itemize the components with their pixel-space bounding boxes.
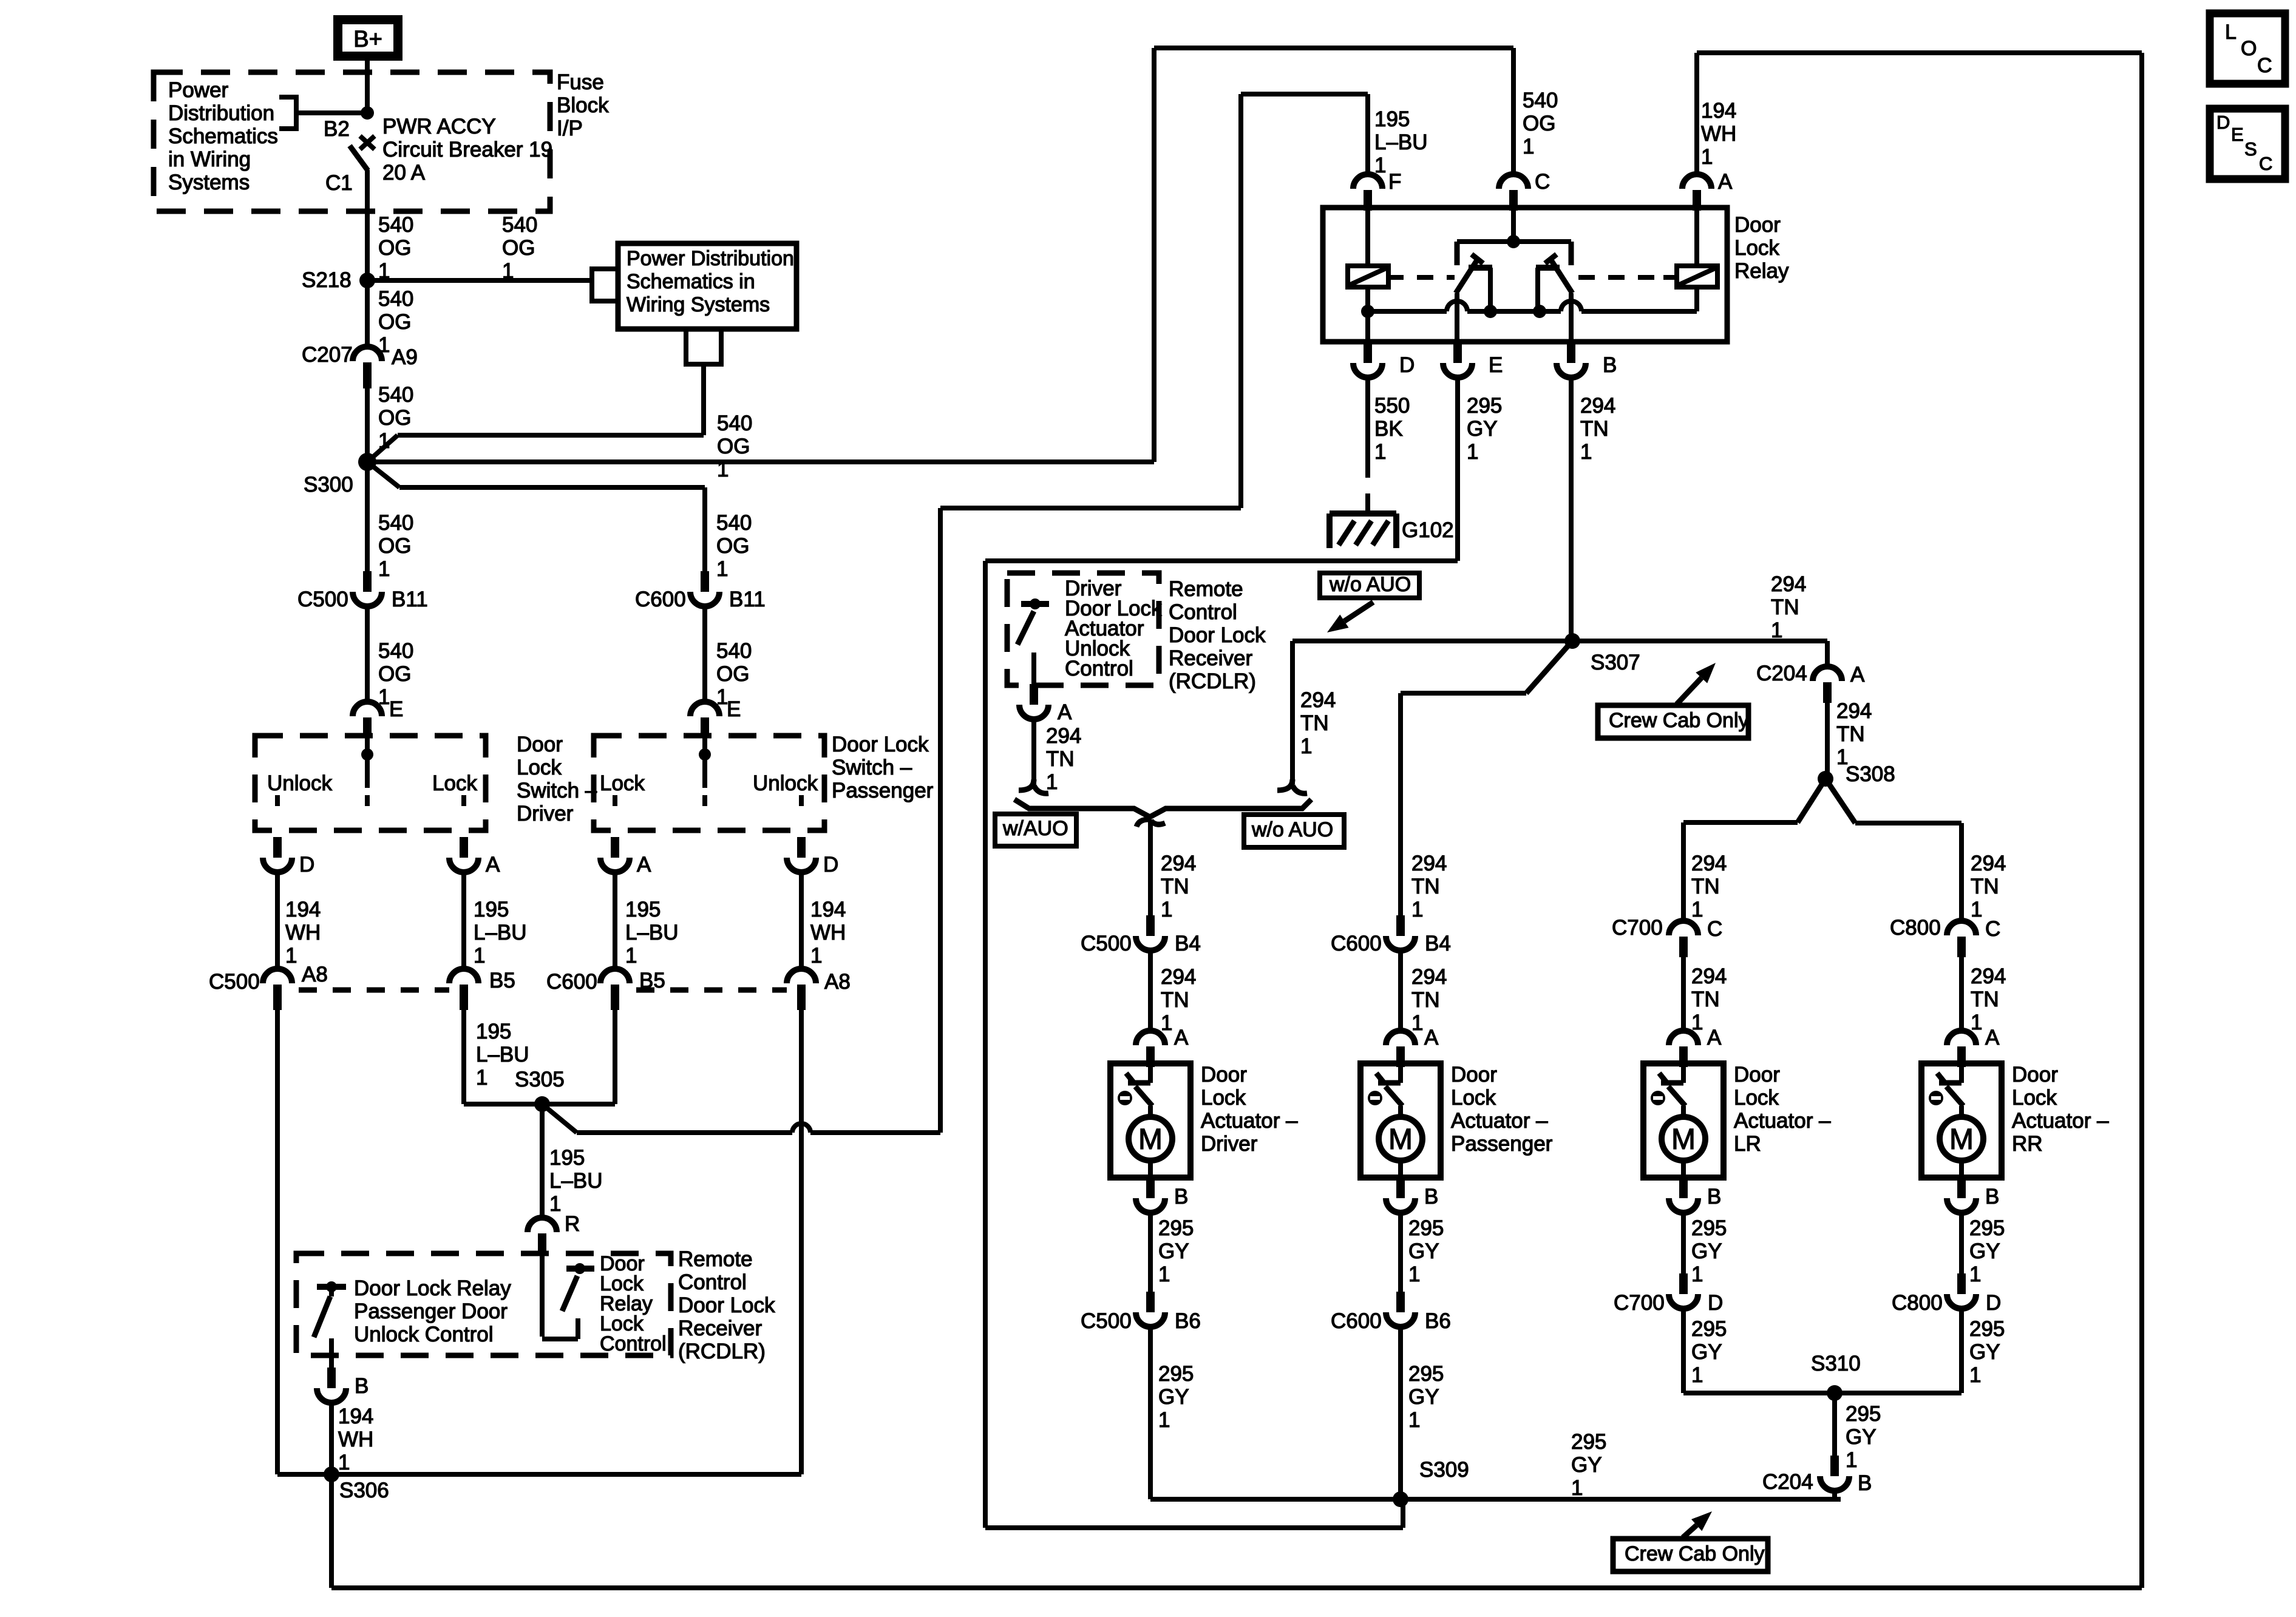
connector A passenger lock output: [611, 837, 619, 858]
connector C600 pin B6: [1396, 1292, 1405, 1312]
svg-text:294: 294: [1046, 724, 1081, 748]
connector D relay: [1364, 342, 1372, 363]
svg-text:TN: TN: [1046, 747, 1075, 771]
svg-text:C600: C600: [635, 588, 686, 611]
svg-text:A: A: [1058, 700, 1072, 724]
connector C700 pin C: [1669, 921, 1698, 935]
svg-text:C600: C600: [1331, 1309, 1382, 1333]
svg-text:B: B: [1603, 353, 1617, 377]
node S305: [534, 1096, 550, 1112]
svg-text:A: A: [1985, 1026, 2000, 1049]
w/o AUO option box 2: [1244, 815, 1344, 847]
svg-text:Lock: Lock: [1734, 1086, 1779, 1110]
node S300: [358, 453, 376, 471]
svg-text:1: 1: [1158, 1408, 1170, 1432]
svg-text:D: D: [1399, 353, 1415, 377]
svg-text:I/P: I/P: [557, 117, 583, 140]
connector D passenger unlock output: [797, 837, 806, 858]
svg-text:GY: GY: [1691, 1239, 1722, 1263]
svg-text:M: M: [1949, 1124, 1974, 1156]
wire A down to w/AUO hook: [1031, 719, 1036, 784]
RCDLR dashed box: [296, 1253, 671, 1355]
wire S300 down-branch to C600: [367, 462, 399, 487]
wire S307 diagonal branch to passenger actuator: [1526, 641, 1572, 693]
svg-text:S310: S310: [1811, 1352, 1861, 1375]
svg-text:1: 1: [716, 557, 728, 581]
relay lock coil: [1365, 211, 1370, 266]
motor M LR actuator: [1662, 1117, 1705, 1161]
svg-text:294: 294: [1580, 394, 1615, 418]
svg-text:1: 1: [1408, 1263, 1420, 1286]
svg-text:1: 1: [1691, 1363, 1703, 1387]
connector A8 passenger: [787, 969, 816, 983]
wire B down to S306: [329, 1403, 334, 1474]
svg-text:C204: C204: [1756, 662, 1807, 685]
w/AUO option box: [995, 814, 1076, 846]
svg-text:B: B: [1985, 1185, 1999, 1209]
svg-text:D: D: [1986, 1291, 2001, 1315]
svg-text:1: 1: [1691, 898, 1703, 921]
svg-text:Power Distribution: Power Distribution: [627, 247, 794, 270]
svg-text:C600: C600: [1331, 932, 1382, 955]
connector C600 pin B4: [1396, 915, 1405, 936]
connector bridge dashes driver: [299, 988, 449, 993]
svg-text:A: A: [1174, 1026, 1189, 1049]
svg-text:Lock: Lock: [1734, 236, 1779, 260]
svg-text:Schematics: Schematics: [168, 124, 278, 148]
hook w/AUO wire end: [1019, 779, 1034, 790]
wire S218 to power distribution box bracket: [367, 278, 592, 283]
wire C600 B4 to actuator A: [1398, 951, 1403, 1031]
wire C204 B to S309 line: [1832, 1491, 1837, 1499]
wire S310 down to C204 B: [1832, 1393, 1837, 1456]
svg-text:S300: S300: [304, 473, 353, 497]
svg-text:Wiring Systems: Wiring Systems: [627, 293, 770, 316]
w/o AUO option box with arrow: [1320, 573, 1419, 598]
svg-text:C500: C500: [1081, 932, 1132, 955]
wire switch to connector A: [1031, 653, 1036, 684]
svg-text:OG: OG: [378, 310, 411, 334]
connector A RR actuator: [1947, 1031, 1976, 1045]
svg-text:GY: GY: [1846, 1425, 1877, 1449]
connector A RCDLR upper: [1030, 684, 1038, 705]
relay lock switch blade: [1550, 259, 1572, 293]
svg-text:E: E: [389, 697, 403, 721]
svg-text:C800: C800: [1892, 1291, 1943, 1315]
svg-text:1: 1: [1300, 734, 1312, 758]
motor M RR actuator: [1940, 1117, 1983, 1161]
connector B passenger actuator: [1396, 1178, 1405, 1198]
svg-text:540: 540: [378, 511, 413, 535]
svg-text:TN: TN: [1691, 875, 1720, 898]
svg-text:OG: OG: [378, 534, 411, 558]
svg-text:540: 540: [378, 213, 413, 237]
wire C500 to driver switch pin E: [365, 606, 370, 702]
connector C204 pin A: [1813, 666, 1842, 681]
svg-text:L–BU: L–BU: [474, 921, 527, 944]
svg-text:1: 1: [1969, 1363, 1981, 1387]
wire B2 feed to breaker: [296, 110, 367, 115]
svg-text:L–BU: L–BU: [476, 1043, 529, 1066]
svg-text:GY: GY: [1408, 1385, 1439, 1409]
svg-text:1: 1: [1969, 1263, 1981, 1286]
svg-text:C1: C1: [325, 171, 353, 195]
B+ battery terminal: [338, 20, 398, 56]
svg-text:Lock: Lock: [1201, 1086, 1246, 1110]
svg-text:540: 540: [716, 639, 752, 663]
svg-text:1: 1: [1374, 440, 1386, 464]
relay unlock switch NC contact: [1469, 265, 1492, 271]
svg-text:295: 295: [1408, 1216, 1444, 1240]
wire breaker C1 down to S218: [365, 170, 370, 280]
connector A driver actuator: [1136, 1031, 1165, 1045]
wire driver A to B5: [461, 872, 466, 969]
wire C700 C to actuator A: [1681, 957, 1686, 1031]
wire C500 B4 to actuator A: [1148, 951, 1153, 1031]
passenger switch feed wire and node: [702, 738, 707, 788]
svg-text:1: 1: [1161, 898, 1172, 921]
svg-text:A: A: [637, 853, 651, 876]
svg-text:Unlock Control: Unlock Control: [354, 1323, 494, 1346]
svg-text:Door: Door: [2012, 1063, 2058, 1086]
svg-text:Door Lock: Door Lock: [678, 1293, 775, 1317]
wire S305 down to R: [540, 1104, 545, 1218]
svg-text:540: 540: [717, 412, 752, 435]
svg-text:BK: BK: [1374, 417, 1403, 441]
svg-text:B: B: [1858, 1471, 1872, 1495]
svg-text:OG: OG: [378, 662, 411, 686]
wire S218 to C207: [365, 280, 370, 347]
connector C800 pin C: [1947, 921, 1976, 935]
svg-text:Door Lock: Door Lock: [832, 733, 929, 756]
wire S307 to C204 corner: [1825, 641, 1830, 666]
bracket below power distribution box: [686, 331, 721, 364]
power distribution schematics box: [618, 243, 796, 329]
connector C600 pin B5: [600, 969, 630, 983]
svg-text:Lock: Lock: [517, 756, 562, 779]
ground G102: [1330, 510, 1396, 517]
wire brace to driver actuator C500 B4: [1136, 819, 1149, 827]
svg-text:540: 540: [502, 213, 537, 237]
svg-text:D: D: [2216, 112, 2230, 133]
svg-text:OG: OG: [502, 236, 535, 260]
svg-text:294: 294: [1691, 964, 1727, 988]
svg-text:Receiver: Receiver: [678, 1317, 762, 1340]
fuse block I/P dashed box: [154, 72, 550, 211]
connector D driver unlock output: [273, 837, 282, 858]
svg-text:1: 1: [1691, 1263, 1703, 1286]
svg-text:294: 294: [1411, 965, 1447, 989]
svg-text:1: 1: [1580, 440, 1592, 464]
door lock relay box: [1323, 208, 1727, 342]
svg-text:20 A: 20 A: [382, 161, 426, 185]
relay unlock coil: [1694, 211, 1699, 266]
svg-text:Power: Power: [168, 78, 229, 102]
svg-text:C: C: [2259, 153, 2272, 174]
svg-text:Door: Door: [517, 733, 563, 756]
svg-text:A9: A9: [392, 345, 418, 369]
svg-text:540: 540: [716, 511, 752, 535]
svg-text:S307: S307: [1591, 651, 1640, 674]
wire relay B down to S307 (294 TN): [1569, 378, 1574, 641]
circuit breaker blade: [350, 146, 368, 171]
wire R to lock control switch: [540, 1254, 545, 1337]
connector C500 pin A8: [263, 969, 292, 983]
connector E passenger switch: [690, 702, 719, 716]
svg-text:1: 1: [474, 944, 485, 968]
connector B LR actuator: [1679, 1178, 1688, 1198]
svg-text:194: 194: [338, 1405, 373, 1428]
svg-text:195: 195: [1374, 107, 1410, 131]
svg-text:Lock: Lock: [1451, 1086, 1496, 1110]
connector B RR actuator: [1957, 1178, 1966, 1198]
svg-text:Actuator –: Actuator –: [1451, 1109, 1548, 1133]
svg-text:L–BU: L–BU: [1374, 131, 1428, 154]
svg-text:B+: B+: [353, 27, 382, 52]
svg-text:1: 1: [1771, 619, 1782, 642]
svg-text:1: 1: [1046, 770, 1058, 794]
bracket at power distribution box: [592, 269, 618, 301]
svg-text:1: 1: [1408, 1408, 1420, 1432]
connector E relay: [1453, 342, 1462, 363]
svg-text:(RCDLR): (RCDLR): [678, 1340, 766, 1363]
connector B5 driver: [449, 969, 478, 983]
svg-text:WH: WH: [1701, 122, 1736, 146]
svg-text:1: 1: [625, 944, 637, 968]
RCDLR lock control switch: [566, 1266, 594, 1272]
svg-text:Control: Control: [600, 1332, 667, 1355]
svg-text:Crew Cab Only: Crew Cab Only: [1625, 1542, 1765, 1565]
svg-text:294: 294: [1300, 688, 1336, 712]
svg-text:C700: C700: [1614, 1291, 1665, 1315]
connector C500 pin B4: [1146, 915, 1155, 936]
svg-text:A: A: [1718, 170, 1733, 194]
wire RR actuator B down: [1959, 1213, 1964, 1273]
connector A LR actuator: [1669, 1031, 1698, 1045]
svg-text:Actuator –: Actuator –: [1734, 1109, 1831, 1133]
svg-text:295: 295: [1846, 1402, 1881, 1426]
svg-text:C: C: [1707, 917, 1722, 941]
svg-text:WH: WH: [285, 921, 321, 944]
svg-text:GY: GY: [1691, 1340, 1722, 1364]
svg-text:195: 195: [625, 898, 661, 921]
svg-text:294: 294: [1971, 852, 2006, 875]
svg-text:GY: GY: [1969, 1239, 2000, 1263]
svg-text:RR: RR: [2012, 1132, 2043, 1156]
bracket for power distribution reference: [279, 97, 296, 129]
svg-text:B: B: [1174, 1185, 1188, 1209]
node S218: [359, 273, 375, 288]
svg-text:Switch –: Switch –: [517, 779, 597, 802]
wire RR actuator D to S310: [1835, 1391, 1961, 1395]
RR actuator switch: [1959, 1067, 1964, 1083]
svg-text:w/o AUO: w/o AUO: [1251, 818, 1333, 841]
LOC reference box: [2210, 13, 2285, 84]
svg-text:C500: C500: [297, 588, 348, 611]
svg-text:M: M: [1388, 1124, 1413, 1156]
svg-text:1: 1: [378, 429, 390, 453]
svg-text:WH: WH: [810, 921, 846, 944]
svg-text:GY: GY: [1408, 1239, 1439, 1263]
node S306: [324, 1466, 339, 1482]
door lock actuator passenger box: [1360, 1063, 1441, 1178]
svg-text:C500: C500: [1081, 1309, 1132, 1333]
svg-text:1: 1: [1158, 1263, 1170, 1286]
wire S306 horizontal: [277, 1472, 801, 1477]
wire passenger D to A8: [799, 872, 804, 969]
door lock switch passenger dashed box: [594, 736, 824, 830]
connector A relay: [1682, 174, 1711, 189]
svg-text:S309: S309: [1419, 1458, 1469, 1482]
connector B RCDLR: [327, 1368, 336, 1388]
wire power distribution drop to S300 branch: [701, 364, 706, 435]
LR actuator switch: [1681, 1067, 1686, 1083]
svg-text:C: C: [1985, 917, 2000, 941]
svg-text:1: 1: [1411, 1011, 1423, 1035]
svg-text:Door Lock Relay: Door Lock Relay: [354, 1276, 511, 1300]
svg-text:C800: C800: [1890, 916, 1941, 940]
svg-text:B6: B6: [1175, 1309, 1201, 1333]
wire below C500 B6: [1148, 1327, 1153, 1499]
svg-text:S305: S305: [515, 1068, 565, 1091]
svg-text:S306: S306: [339, 1479, 389, 1502]
wire S300 to relay pin C (540 OG): [367, 459, 1154, 464]
svg-text:B4: B4: [1425, 932, 1451, 955]
svg-text:C600: C600: [546, 970, 597, 994]
node S310: [1827, 1385, 1843, 1401]
svg-text:D: D: [299, 853, 314, 876]
circuit breaker CB19 contact x: [360, 136, 375, 149]
svg-text:Circuit Breaker 19: Circuit Breaker 19: [382, 138, 552, 161]
svg-text:w/o AUO: w/o AUO: [1329, 573, 1411, 596]
svg-text:TN: TN: [1836, 722, 1865, 746]
svg-text:Actuator –: Actuator –: [1201, 1109, 1298, 1133]
svg-text:GY: GY: [1969, 1340, 2000, 1364]
wire S306 bottom loop to relay pin A: [329, 1474, 334, 1588]
svg-text:294: 294: [1836, 699, 1872, 723]
svg-text:TN: TN: [1971, 988, 1999, 1011]
svg-text:1: 1: [549, 1192, 561, 1216]
driver switch contact dashes: [275, 795, 280, 806]
svg-text:294: 294: [1411, 852, 1447, 875]
svg-text:Block: Block: [557, 93, 609, 117]
svg-text:1: 1: [1411, 898, 1423, 921]
svg-text:1: 1: [285, 944, 297, 968]
relay ground leg to pin D: [1365, 311, 1370, 342]
wire below C800 D: [1959, 1309, 1964, 1393]
svg-text:1: 1: [1971, 898, 1982, 921]
door lock actuator driver box: [1110, 1063, 1190, 1178]
label Crew Cab Only with arrow: [1598, 705, 1748, 738]
wire S305 to relay pin F (195 L-BU): [542, 1104, 577, 1133]
svg-text:Passenger: Passenger: [832, 779, 934, 802]
svg-text:E: E: [2231, 124, 2244, 145]
svg-text:295: 295: [1969, 1216, 2005, 1240]
svg-text:1: 1: [476, 1066, 487, 1090]
motor M passenger actuator: [1379, 1117, 1422, 1161]
wire below C600 B6: [1398, 1327, 1403, 1499]
svg-text:B11: B11: [392, 588, 428, 611]
svg-text:Switch –: Switch –: [832, 756, 912, 779]
svg-text:OG: OG: [717, 435, 750, 458]
wire S308 to LR actuator branch: [1798, 779, 1826, 822]
driver door lock actuator unlock control dashed box: [1007, 573, 1159, 685]
svg-text:L–BU: L–BU: [549, 1169, 603, 1193]
relay lock switch NC contact: [1536, 265, 1560, 271]
svg-text:295: 295: [1691, 1317, 1727, 1341]
svg-text:A: A: [486, 853, 500, 876]
wire passenger A to B5: [613, 872, 617, 969]
svg-text:TN: TN: [1161, 875, 1189, 898]
relay coil dashed link: [1388, 275, 1404, 280]
svg-text:295: 295: [1571, 1430, 1606, 1454]
svg-text:TN: TN: [1580, 417, 1609, 441]
svg-text:A8: A8: [824, 970, 851, 994]
svg-text:OG: OG: [716, 662, 749, 686]
svg-text:Lock: Lock: [432, 771, 477, 795]
svg-text:540: 540: [1523, 89, 1558, 112]
connector E driver switch: [353, 702, 382, 716]
svg-text:M: M: [1671, 1124, 1696, 1156]
svg-text:294: 294: [1771, 572, 1806, 596]
svg-text:294: 294: [1161, 852, 1196, 875]
svg-text:PWR ACCY: PWR ACCY: [382, 115, 496, 138]
svg-text:S218: S218: [302, 268, 352, 292]
svg-text:Door: Door: [1734, 1063, 1780, 1086]
svg-text:OG: OG: [378, 236, 411, 260]
wire passenger actuator B down: [1398, 1213, 1403, 1292]
connector F relay: [1353, 174, 1382, 189]
brace joining AUO options: [1014, 799, 1311, 817]
door lock actuator RR box: [1921, 1063, 2002, 1178]
svg-text:1: 1: [378, 557, 390, 581]
svg-text:Control: Control: [1065, 657, 1133, 680]
svg-text:S308: S308: [1846, 762, 1895, 786]
passenger switch contact dashes: [613, 795, 617, 806]
svg-text:1: 1: [1571, 1476, 1583, 1500]
svg-text:E: E: [1489, 353, 1503, 377]
svg-text:295: 295: [1158, 1362, 1194, 1386]
wire driver actuator B down: [1148, 1213, 1153, 1292]
svg-text:Control: Control: [678, 1270, 747, 1294]
svg-text:1: 1: [338, 1451, 350, 1474]
svg-text:B6: B6: [1425, 1309, 1451, 1333]
wire driver B5 down to S305: [461, 1010, 466, 1104]
node breaker feed junction: [361, 106, 374, 120]
svg-text:294: 294: [1161, 965, 1196, 989]
svg-text:L–BU: L–BU: [625, 921, 679, 944]
svg-text:GY: GY: [1571, 1453, 1602, 1477]
svg-text:(RCDLR): (RCDLR): [1169, 670, 1256, 693]
svg-text:540: 540: [378, 287, 413, 311]
svg-text:Schematics in: Schematics in: [627, 270, 755, 293]
door lock switch driver dashed box: [255, 736, 486, 830]
connector C relay: [1499, 174, 1528, 189]
svg-text:Relay: Relay: [1734, 259, 1789, 283]
svg-text:Actuator –: Actuator –: [2012, 1109, 2109, 1133]
svg-text:A8: A8: [302, 963, 328, 986]
svg-text:TN: TN: [1161, 988, 1189, 1012]
svg-text:Unlock: Unlock: [753, 771, 818, 795]
svg-text:GY: GY: [1467, 417, 1498, 441]
svg-text:1: 1: [1701, 145, 1713, 169]
svg-text:195: 195: [474, 898, 509, 921]
svg-text:1: 1: [1971, 1011, 1982, 1034]
svg-text:O: O: [2241, 37, 2257, 60]
svg-text:294: 294: [1691, 852, 1727, 875]
wire driver actuator B6 to S309: [1150, 1497, 1401, 1502]
svg-text:1: 1: [1467, 440, 1478, 464]
